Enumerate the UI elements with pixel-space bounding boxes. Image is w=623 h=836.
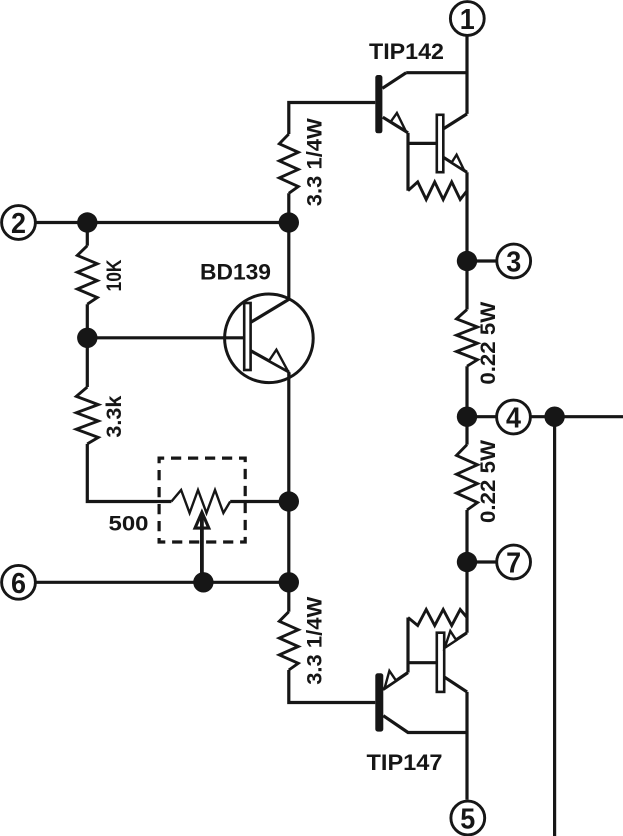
svg-text:2: 2 — [11, 208, 26, 240]
transistor Q1 BD139 — [225, 294, 314, 383]
wire: TIP142 collector top line — [406, 71, 467, 74]
resistor R5 0.22 5W upper — [457, 310, 478, 367]
wire: node 4 stub right — [531, 415, 555, 418]
wire: center rail R3 to BD139 collector — [287, 193, 290, 299]
svg-text:3.3 1/4W: 3.3 1/4W — [304, 597, 327, 685]
svg-text:0.22 5W: 0.22 5W — [477, 440, 500, 523]
svg-text:TIP147: TIP147 — [367, 750, 443, 775]
svg-text:1: 1 — [460, 4, 475, 36]
junction dot: center rail x node 6 line — [279, 572, 299, 592]
transistor Q3 TIP147 (darlington) — [375, 610, 467, 733]
potentiometer 500 (dashed box) — [159, 458, 245, 582]
wire: center rail bottom corner to TIP147 base — [289, 670, 376, 703]
wire: left rail mid (10K to 3.3k) — [86, 304, 89, 387]
wire: center rail BD139 emitter down to pot junction and node 6 line — [287, 372, 290, 582]
svg-text:3: 3 — [506, 247, 521, 279]
junction dot: BD139 base node — [77, 328, 97, 348]
junction dot: center rail x pot line — [279, 491, 299, 511]
svg-text:5: 5 — [460, 804, 475, 836]
wire: BD139 base wire — [87, 336, 244, 339]
wire: terminal 6 line — [36, 581, 289, 584]
terminal 5 — [451, 801, 485, 835]
svg-text:3.3k: 3.3k — [103, 395, 126, 437]
resistor R3 3.3 1/4W top — [279, 134, 298, 193]
svg-text:TIP142: TIP142 — [369, 39, 444, 64]
svg-text:10K: 10K — [103, 260, 126, 292]
wire: right rail node 3 resistor to node 4 — [465, 366, 468, 444]
terminal 1 — [450, 2, 484, 36]
junction dot: center rail x node 2 line — [279, 212, 299, 232]
wire: output line to right edge — [555, 415, 623, 418]
svg-text:500: 500 — [109, 513, 149, 536]
wire: node 7 stub — [467, 560, 496, 563]
junction dot: node 4 left — [457, 407, 477, 427]
wire: terminal 1 lead down — [465, 36, 468, 114]
junction dot: node 3 — [457, 251, 477, 271]
wire: pot line right segment — [230, 500, 289, 503]
junction dot: node 2 x left rail — [77, 212, 97, 232]
resistor R2 3.3k — [76, 387, 98, 444]
wire: left rail upper (node 2 to 10K) — [86, 223, 89, 246]
resistor R4 3.3 1/4W bottom — [279, 612, 298, 670]
wire: far right rail down — [553, 417, 556, 836]
svg-text:BD139: BD139 — [200, 260, 271, 285]
wire: center rail node 6 to R4 — [287, 582, 290, 611]
transistor Q2 TIP142 (darlington) — [375, 73, 467, 200]
wire: center rail top corner to TIP142 base — [289, 103, 376, 135]
wire: right rail TIP147 collector to terminal 5 — [465, 692, 468, 800]
terminal 3 — [497, 244, 531, 278]
wire: node 3 stub — [467, 259, 497, 262]
wire: terminal 2 line — [36, 221, 289, 224]
terminal 2 — [2, 206, 36, 240]
svg-text:6: 6 — [11, 568, 26, 600]
junction dot: node 7 — [457, 552, 477, 572]
svg-text:4: 4 — [506, 403, 521, 435]
terminal 6 — [2, 565, 36, 599]
wire: right rail TIP142 emitter to node 3 — [465, 172, 468, 309]
resistor R1 10K — [77, 246, 97, 305]
terminal 7 — [497, 545, 531, 579]
terminal 4 — [497, 400, 531, 434]
wire: node 4 stub left — [467, 415, 496, 418]
resistor R6 0.22 5W lower — [457, 445, 478, 510]
wire: right rail node 7 to TIP147 — [465, 510, 468, 633]
junction dot: node 4 right — [544, 407, 564, 427]
svg-text:0.22 5W: 0.22 5W — [477, 302, 500, 385]
junction dot: wiper x node 6 line — [193, 572, 213, 592]
wire: left rail lower, corner to pot — [87, 444, 171, 502]
svg-text:7: 7 — [506, 548, 521, 580]
svg-text:3.3 1/4W: 3.3 1/4W — [304, 118, 327, 206]
